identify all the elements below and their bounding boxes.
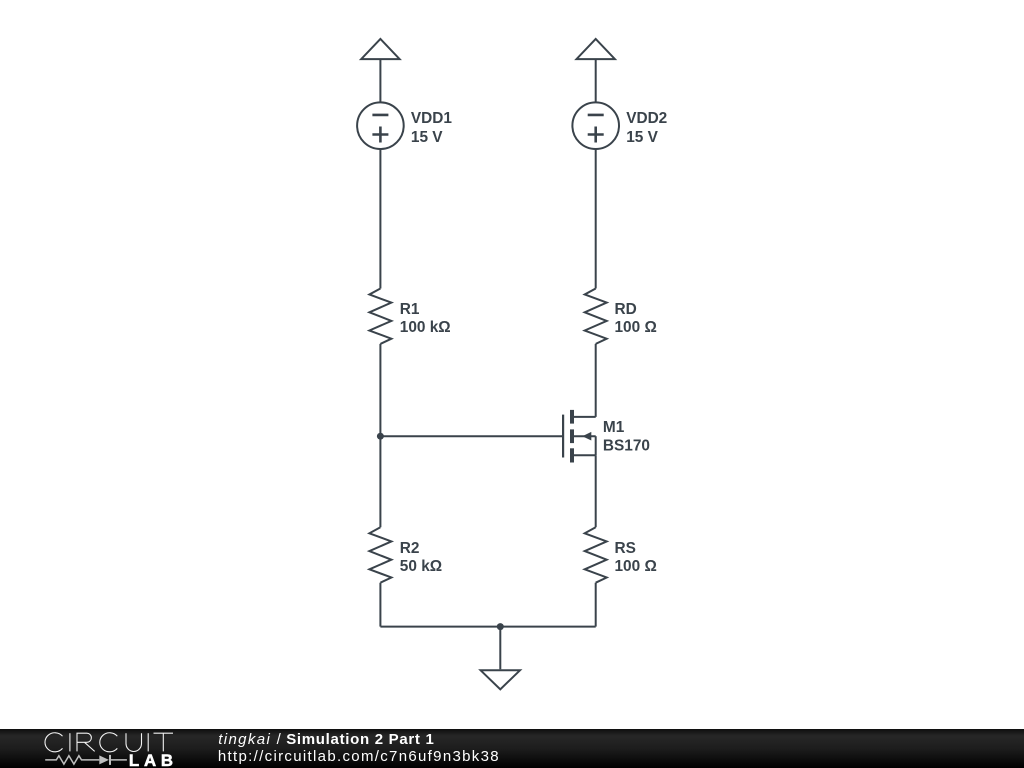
voltage source VDD1 [357, 102, 404, 149]
footer bar [0, 729, 1024, 768]
power flag VDD2 net [577, 39, 615, 59]
wire VDD2 to RD [595, 149, 597, 289]
node gate junction [377, 433, 384, 440]
svg-text:15 V: 15 V [411, 129, 443, 146]
svg-text:100 Ω: 100 Ω [615, 319, 657, 336]
wire flag to VDD2 [595, 59, 597, 103]
svg-text:15 V: 15 V [626, 129, 658, 146]
power flag VDD1 net [361, 39, 399, 59]
logo CIRCUIT wordmark [45, 733, 173, 752]
transistor M1 [563, 410, 596, 463]
svg-text:http://circuitlab.com/c7n6uf9n: http://circuitlab.com/c7n6uf9n3bk38 [218, 748, 499, 765]
svg-text:50 kΩ: 50 kΩ [400, 558, 442, 575]
logo LAB [129, 751, 173, 768]
node ground junction [497, 623, 504, 630]
label VDD1 [411, 110, 452, 146]
voltage source VDD2 [572, 102, 619, 149]
label VDD2 [626, 110, 667, 146]
footer title line [218, 731, 434, 748]
resistor RD [585, 289, 607, 344]
wire to ground [499, 627, 501, 670]
label M1 [603, 419, 650, 454]
logo resistor-diode glyph [45, 755, 127, 765]
svg-text:R2: R2 [400, 540, 420, 557]
svg-text:VDD2: VDD2 [626, 110, 667, 127]
label R1 [400, 301, 451, 336]
wire source to RS [595, 455, 597, 527]
footer url line [218, 748, 499, 765]
svg-text:tingkai: tingkai [218, 731, 270, 748]
resistor RS [585, 527, 607, 582]
label R2 [400, 540, 442, 575]
wire R1 to R2 through gate node [379, 344, 381, 527]
svg-text:100 kΩ: 100 kΩ [400, 319, 451, 336]
svg-text:BS170: BS170 [603, 437, 650, 454]
wire R2 to bottom [379, 583, 381, 627]
svg-text:LAB: LAB [129, 751, 173, 768]
wire RD to drain [595, 344, 597, 417]
svg-text:RD: RD [615, 301, 637, 318]
label RS [615, 540, 657, 575]
wire flag to VDD1 [379, 59, 381, 103]
svg-text:100 Ω: 100 Ω [615, 558, 657, 575]
wire bottom rail [380, 626, 595, 628]
resistor R1 [369, 289, 391, 344]
wire RS to bottom [595, 583, 597, 627]
ground [481, 670, 520, 689]
svg-text:M1: M1 [603, 419, 625, 436]
wire VDD1 to R1 [379, 149, 381, 289]
wire gate [380, 435, 563, 437]
label RD [615, 301, 657, 336]
svg-text:VDD1: VDD1 [411, 110, 452, 127]
svg-text:R1: R1 [400, 301, 420, 318]
svg-text:Simulation 2 Part 1: Simulation 2 Part 1 [286, 731, 434, 748]
svg-text:RS: RS [615, 540, 636, 557]
resistor R2 [369, 527, 391, 582]
